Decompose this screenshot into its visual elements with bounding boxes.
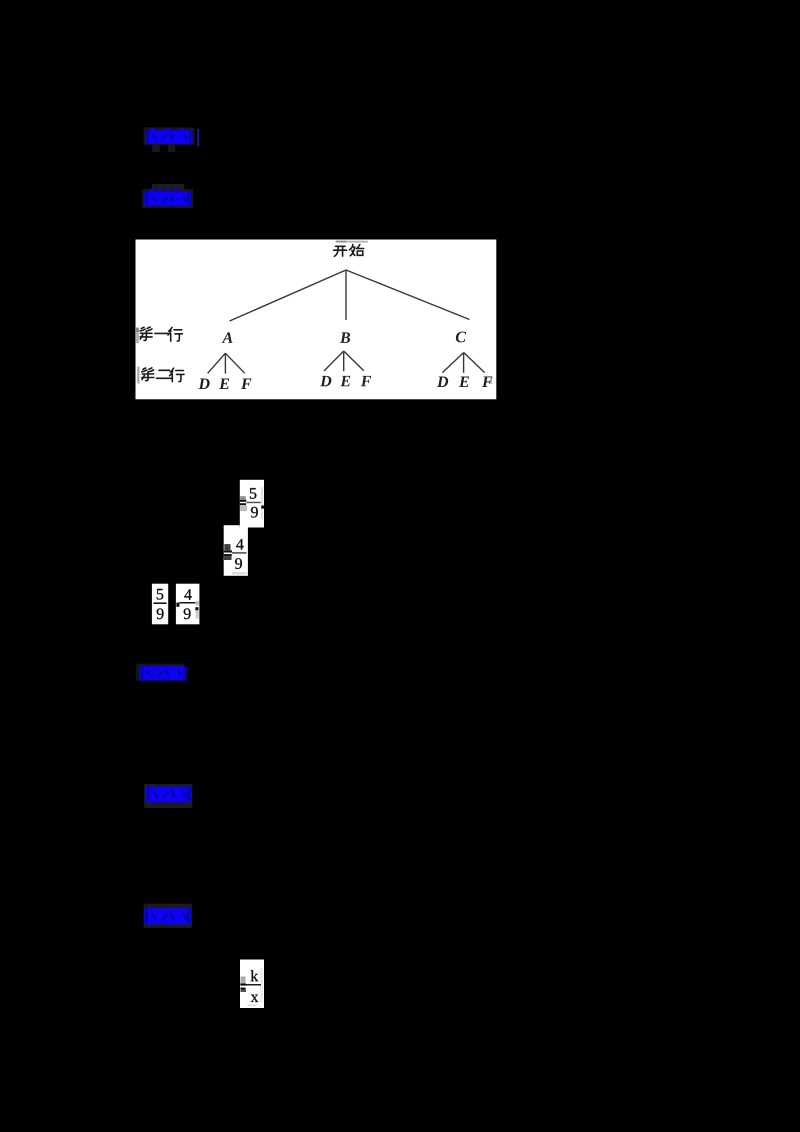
A subtree leaves D E F bbox=[198, 379, 209, 390]
node B bbox=[340, 332, 350, 343]
eq5 light gray right column bbox=[260, 968, 263, 1002]
blue heading 5 bbox=[144, 908, 191, 924]
行 bbox=[170, 368, 184, 381]
blue heading 3 bbox=[140, 666, 187, 680]
eq4 numerator 4 bbox=[184, 589, 191, 600]
eq4 fraction bar bbox=[180, 602, 196, 604]
equation image 1: =5/9 white box bbox=[240, 480, 264, 528]
B subtree edges bbox=[324, 351, 364, 371]
eq5 equals sign bbox=[241, 977, 246, 984]
eq4 multiplication dot bbox=[176, 603, 179, 607]
eq1 fraction bar bbox=[246, 502, 261, 504]
开 bbox=[334, 246, 347, 256]
gray halo above kaishi bbox=[336, 241, 368, 243]
eq2 equals sign bbox=[224, 544, 230, 550]
A subtree edges bbox=[208, 353, 245, 373]
eq2 denominator 9 bbox=[235, 558, 242, 569]
eq2 numerator 4 bbox=[236, 539, 243, 550]
equation image 2: =4/9 white box bbox=[224, 528, 248, 576]
eq5 fraction bar bbox=[246, 984, 261, 986]
node A bbox=[222, 332, 233, 343]
tree edge to A bbox=[230, 270, 346, 321]
eq1 denominator 9 bbox=[251, 507, 258, 518]
第 bbox=[142, 368, 154, 381]
tree edge to C bbox=[346, 270, 470, 320]
二 bbox=[157, 370, 172, 378]
gray tick at box right edge bbox=[491, 376, 492, 384]
row label 1 (第一行) bbox=[140, 327, 182, 341]
eq5 denominator x bbox=[251, 995, 259, 1002]
row label 2 leading bar bbox=[137, 367, 139, 384]
blue heading 3 halo bbox=[136, 664, 184, 681]
equation image 4: .4/9. white box bbox=[176, 584, 200, 625]
diagram image white box bbox=[136, 240, 497, 400]
blue heading 4 bbox=[146, 787, 192, 803]
blue heading 1 descender marks bbox=[152, 144, 160, 152]
blue heading 1 trailing thin mark bbox=[198, 129, 199, 146]
C subtree edges bbox=[442, 353, 484, 373]
blue heading 5 halo bbox=[144, 904, 192, 928]
始 bbox=[350, 245, 364, 256]
blue heading 1 bbox=[146, 129, 192, 144]
eq1 numerator 5 bbox=[250, 488, 256, 499]
第 bbox=[140, 327, 152, 340]
row label 1 leading bar bbox=[136, 328, 139, 344]
一 bbox=[155, 332, 168, 334]
equation image 5: =k/x white box bbox=[240, 960, 264, 1009]
tree edge to B bbox=[345, 270, 347, 320]
blue heading 1 halo bbox=[144, 127, 195, 144]
eq1 equals sign bbox=[240, 496, 246, 500]
blue heading 2 bbox=[144, 189, 191, 206]
C subtree leaves D E F bbox=[437, 377, 448, 388]
eq4 right-edge gray patches bbox=[196, 601, 200, 605]
eq5 numerator k bbox=[251, 970, 259, 981]
B subtree leaves D E F bbox=[320, 376, 331, 387]
row label 2 (第二行) bbox=[142, 368, 184, 382]
node C bbox=[456, 332, 466, 343]
blue heading 2 halo bbox=[152, 184, 184, 192]
eq3 fraction bar bbox=[154, 602, 167, 604]
行 bbox=[168, 327, 182, 341]
eq4 trailing period bbox=[195, 607, 198, 610]
eq3 denominator 9 bbox=[157, 608, 164, 619]
eq3 numerator 5 bbox=[157, 589, 163, 600]
eq2 fraction bar bbox=[232, 552, 247, 553]
equation image 3: 5/9 white box bbox=[152, 584, 168, 625]
label kaishi (开始) bbox=[334, 245, 364, 257]
eq1 trailing period bbox=[261, 506, 264, 509]
eq4 denominator 9 bbox=[184, 608, 191, 619]
blue heading 4 halo bbox=[144, 784, 192, 808]
